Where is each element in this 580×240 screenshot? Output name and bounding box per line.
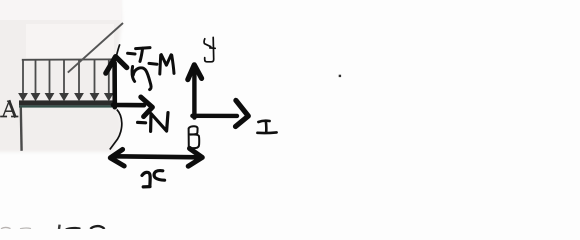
normal force arrow -N (right arrow) bbox=[113, 97, 152, 117]
distributed load line 5 bbox=[78, 60, 80, 94]
distributed load top line bbox=[22, 58, 113, 60]
beam lower teal edge bbox=[19, 105, 114, 107]
distributed load line 1 bbox=[22, 60, 24, 94]
lighter strip top bbox=[0, 0, 121, 20]
label x bbox=[257, 121, 276, 133]
dimension double arrow x bbox=[110, 148, 202, 166]
scanned paper gray region bbox=[0, 0, 122, 152]
x axis arrow bbox=[192, 100, 248, 126]
section cut line upper bbox=[116, 44, 120, 58]
dimension label x bbox=[142, 171, 165, 187]
distributed load line 6 bbox=[94, 60, 96, 94]
section cut line lower bbox=[110, 110, 122, 150]
label y bbox=[204, 37, 215, 61]
y axis arrow bbox=[188, 65, 202, 118]
bottom scan fragment word top bbox=[66, 227, 81, 229]
distributed load arrowhead 6 bbox=[90, 93, 100, 101]
distributed load line 4 bbox=[63, 60, 65, 94]
label -T bbox=[128, 48, 150, 62]
support edge line below A bbox=[20, 108, 23, 151]
diagonal leader line bbox=[68, 23, 123, 73]
bottom scan fragment S top bbox=[90, 226, 104, 229]
distributed load arrowhead 1 bbox=[18, 93, 28, 101]
distributed load line 7 bbox=[108, 60, 110, 94]
distributed load arrowhead 7 bbox=[104, 93, 114, 101]
label -N bbox=[138, 113, 168, 132]
distributed load arrowhead 2 bbox=[31, 93, 41, 101]
stray dot bbox=[339, 75, 341, 77]
distributed load arrowhead 3 bbox=[45, 93, 55, 101]
label A bbox=[1, 101, 18, 116]
beam segment bbox=[19, 100, 114, 105]
distributed load arrowhead 5 bbox=[74, 93, 84, 101]
shear force arrow -T (up arrow) bbox=[106, 57, 127, 108]
distributed load line 3 bbox=[49, 60, 51, 94]
distributed load arrowhead 4 bbox=[59, 93, 69, 101]
label -M bbox=[149, 55, 174, 74]
bottom scan fragment arc bbox=[1, 227, 11, 228]
bottom scan fragment stroke l bbox=[58, 225, 61, 229]
point B marker bbox=[189, 126, 200, 148]
moment arrow -M (hook) bbox=[132, 67, 151, 90]
bottom scan fragment dashes bbox=[20, 227, 31, 230]
lighter patch inside load area bbox=[26, 24, 114, 58]
distributed load line 2 bbox=[35, 60, 37, 94]
